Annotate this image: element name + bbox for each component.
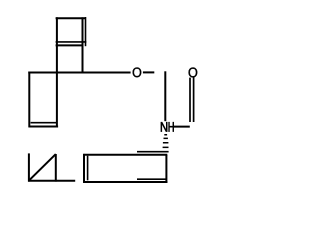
node hash wedge dash 3	[163, 142, 169, 144]
wire bottom-rect right vertical	[165, 155, 167, 183]
wire C=O double bond right line	[193, 77, 195, 122]
node H of NH atom label	[169, 122, 174, 131]
wire square-left-and-rect-right vertical	[56, 17, 58, 127]
wire bottom-rect left inner vertical	[87, 156, 89, 181]
wire square-top	[56, 17, 86, 19]
node N of NH atom label	[161, 122, 167, 131]
wire triangle right vertical	[55, 154, 57, 182]
node carbonyl O atom label	[189, 68, 198, 78]
node hash wedge dash 1	[164, 134, 167, 136]
wire square-bottom main line	[56, 44, 84, 46]
wire C=O double bond left line	[189, 78, 191, 122]
wire bond O to corner	[143, 71, 154, 73]
node ether O atom label	[133, 68, 142, 78]
wire triangle bottom horizontal	[28, 180, 75, 182]
wire bottom-rect left outer vertical	[83, 154, 85, 183]
wire bottom-rect bottom double partner	[137, 178, 166, 180]
wire square-right double-bond partner	[85, 17, 87, 46]
wire square-right vertical	[82, 17, 84, 72]
wire triangle left vertical	[28, 153, 30, 181]
wire bottom-rect bottom main	[83, 181, 167, 183]
wire long horizontal to O	[28, 72, 130, 74]
wire left-rect bottom double partner	[31, 122, 57, 124]
wire bond NH to carbonyl C	[174, 126, 190, 128]
wire left-rect bottom main	[29, 126, 58, 128]
node hash wedge dash 4	[163, 147, 169, 149]
wire triangle hypotenuse diagonal	[29, 154, 56, 181]
wire left-rect left vertical	[28, 72, 30, 128]
wire bottom-rect top double partner	[137, 151, 169, 153]
wire vertical bond corner to N	[164, 71, 166, 121]
wire bottom-rect top main	[83, 154, 167, 156]
node hash wedge dash 2	[164, 138, 168, 140]
wire square-bottom inner double line	[56, 41, 87, 43]
